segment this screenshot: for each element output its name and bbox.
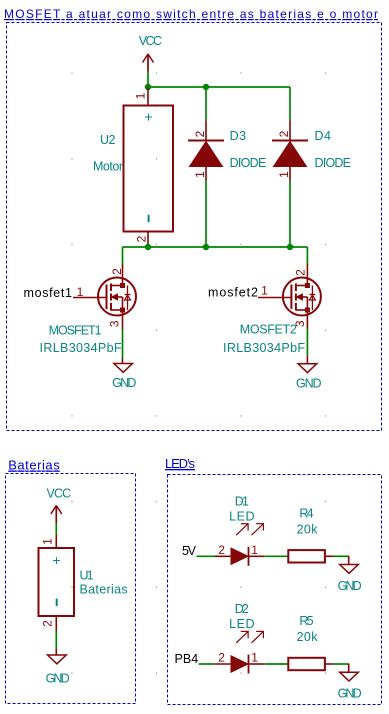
svg-text:Motor: Motor	[93, 160, 123, 174]
svg-text:2: 2	[41, 620, 55, 627]
svg-text:20k: 20k	[297, 523, 319, 537]
svg-text:LED’s: LED’s	[165, 456, 196, 471]
svg-text:MOSFET a atuar como switch ent: MOSFET a atuar como switch entre as bate…	[4, 7, 378, 21]
svg-text:R5: R5	[299, 614, 313, 628]
svg-text:2: 2	[277, 130, 291, 137]
svg-text:DIODE: DIODE	[315, 156, 352, 170]
svg-text:PB4: PB4	[175, 652, 199, 666]
svg-text:U1: U1	[80, 569, 94, 583]
svg-text:GND: GND	[338, 687, 362, 701]
svg-text:2: 2	[218, 651, 225, 665]
svg-text:1: 1	[134, 92, 148, 99]
svg-text:GND: GND	[296, 377, 322, 391]
svg-text:D1: D1	[235, 495, 249, 509]
svg-text:1: 1	[277, 171, 291, 178]
svg-text:GND: GND	[338, 579, 362, 593]
svg-text:3: 3	[108, 320, 122, 327]
svg-text:2: 2	[218, 543, 225, 557]
svg-text:D3: D3	[230, 129, 247, 143]
svg-text:mosfet2: mosfet2	[208, 286, 258, 300]
svg-text:5V: 5V	[182, 544, 197, 558]
svg-text:MOSFET1: MOSFET1	[49, 324, 102, 338]
svg-text:R4: R4	[299, 507, 313, 521]
svg-text:2: 2	[293, 269, 307, 276]
svg-text:2: 2	[110, 268, 124, 275]
svg-text:D4: D4	[315, 129, 332, 143]
svg-text:D2: D2	[235, 602, 249, 616]
svg-text:GND: GND	[112, 376, 136, 390]
svg-text:LED: LED	[229, 510, 254, 524]
svg-text:20k: 20k	[297, 630, 319, 644]
svg-text:+: +	[144, 109, 152, 125]
svg-text:1: 1	[77, 285, 84, 299]
svg-text:MOSFET2: MOSFET2	[240, 323, 297, 337]
svg-text:IRLB3034PbF: IRLB3034PbF	[223, 341, 305, 355]
svg-text:1: 1	[193, 171, 207, 178]
svg-text:1: 1	[251, 543, 258, 557]
svg-text:DIODE: DIODE	[230, 156, 267, 170]
svg-text:IRLB3034PbF: IRLB3034PbF	[40, 341, 122, 355]
svg-text:GND: GND	[46, 672, 70, 686]
svg-text:1: 1	[251, 651, 258, 665]
svg-text:2: 2	[135, 235, 149, 242]
svg-text:Baterias: Baterias	[80, 583, 128, 597]
svg-text:Baterias: Baterias	[8, 458, 60, 473]
svg-text:2: 2	[193, 130, 207, 137]
svg-text:VCC: VCC	[139, 34, 162, 48]
svg-text:LED: LED	[229, 617, 254, 631]
svg-text:1: 1	[261, 284, 268, 298]
svg-text:+: +	[52, 552, 60, 568]
svg-text:1: 1	[41, 538, 55, 545]
svg-text:VCC: VCC	[47, 487, 72, 501]
svg-text:mosfet1: mosfet1	[24, 286, 73, 300]
svg-text:U2: U2	[100, 133, 116, 147]
